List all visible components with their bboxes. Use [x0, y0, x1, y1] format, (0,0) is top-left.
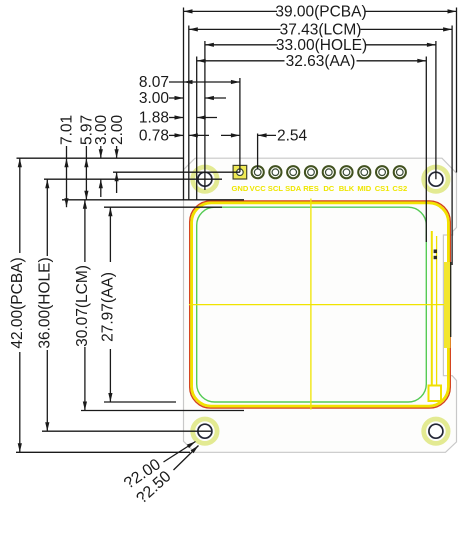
svg-text:30.07(LCM): 30.07(LCM) — [74, 265, 91, 347]
silk mark 2 — [434, 250, 437, 254]
svg-text:CS1: CS1 — [375, 184, 391, 193]
pin 3 round pad — [269, 166, 281, 178]
svg-text:32.63(AA): 32.63(AA) — [286, 53, 356, 70]
svg-text:GND: GND — [231, 184, 248, 193]
dimension 2.00 vertical — [116, 146, 118, 158]
svg-text:36.00(HOLE): 36.00(HOLE) — [37, 257, 54, 348]
flex connector strip (yellow) — [444, 262, 450, 348]
LCD glass right edge line — [431, 231, 433, 391]
svg-text:DC: DC — [323, 184, 334, 193]
flex connector edge — [450, 262, 452, 337]
dimension 37.43(LCM) horizontal — [189, 28, 452, 30]
mounting hole top-left — [193, 167, 217, 191]
svg-text:CS2: CS2 — [392, 184, 407, 193]
leader arrow hole diameter 2.50 — [174, 446, 199, 471]
extension line hole bottom center — [42, 430, 211, 432]
dimension 2.54 pin pitch — [221, 134, 240, 136]
mounting hole bottom-left — [193, 419, 217, 443]
svg-text:BLK: BLK — [339, 184, 355, 193]
extension line PCBA right — [456, 8, 458, 173]
dimension 32.63(AA) horizontal — [197, 60, 427, 62]
pin 7 round pad — [340, 166, 352, 178]
svg-text:27.97(AA): 27.97(AA) — [100, 272, 117, 342]
pin 4 round pad — [287, 166, 299, 178]
svg-text:3.00: 3.00 — [139, 90, 170, 107]
pin 2 round pad — [252, 166, 264, 178]
crosshair vertical centerline — [310, 199, 312, 410]
extension line PCB top — [17, 157, 184, 159]
dimension 8.07 — [169, 81, 240, 83]
svg-text:1.88: 1.88 — [139, 110, 169, 127]
mounting hole top-right — [424, 167, 448, 191]
extension line PCBA left — [183, 8, 185, 200]
dimension 7.01 vertical — [66, 146, 68, 207]
dimension 3.00 horizontal — [169, 97, 184, 99]
pin 9 round pad — [376, 166, 388, 178]
pin 8 round pad — [358, 166, 370, 178]
dimension 42.00(PCBA) vertical — [19, 158, 21, 253]
dimension 27.97(AA) vertical — [109, 207, 111, 262]
extension line HOLE left — [204, 41, 206, 190]
dimension 1.88 — [169, 117, 184, 119]
extension line HOLE right — [435, 41, 437, 179]
svg-text:42.00(PCBA): 42.00(PCBA) — [9, 257, 26, 348]
pin 6 round pad — [323, 166, 335, 178]
LCM glass (yellow) — [192, 203, 449, 406]
extension line pin1 center — [239, 78, 241, 172]
dimension 3.00 vertical — [100, 146, 102, 158]
svg-text:MID: MID — [357, 184, 371, 193]
svg-text:0.78: 0.78 — [139, 128, 169, 145]
dimension 33.00(HOLE) horizontal — [205, 44, 436, 46]
backlight tab bottom-right — [429, 386, 442, 402]
extension line PCB bottom — [16, 451, 190, 453]
dimension 30.07(LCM) vertical — [84, 200, 86, 262]
dimension 0.78 — [169, 134, 184, 136]
svg-text:3.00: 3.00 — [93, 114, 110, 145]
extension line LCM bottom — [81, 410, 244, 412]
extension line LCM top — [62, 199, 244, 201]
leader arrow hole diameter 2.00 — [164, 442, 196, 463]
extension line LCM left — [188, 26, 190, 200]
extension line pin2 center — [257, 134, 259, 170]
svg-text:SCL: SCL — [268, 184, 284, 193]
extension line AA right — [425, 57, 427, 243]
svg-text:7.01: 7.01 — [59, 115, 76, 145]
svg-text:39.00(PCBA): 39.00(PCBA) — [275, 4, 366, 21]
PCB outline — [184, 158, 457, 452]
svg-text:8.07: 8.07 — [139, 74, 169, 91]
extension line AA bottom — [104, 401, 176, 403]
dimension 39.00(PCBA) horizontal — [184, 10, 457, 12]
extension line AA top — [104, 206, 222, 208]
mounting hole bottom-right — [424, 419, 448, 443]
dimension 5.97 vertical — [85, 146, 87, 200]
crosshair horizontal centerline — [189, 304, 444, 306]
glass ledge edge line — [436, 236, 438, 399]
svg-text:2.54: 2.54 — [277, 128, 308, 145]
pin 10 round pad — [394, 166, 406, 178]
extension line AA left — [196, 57, 198, 200]
LCM outer boundary (red) — [190, 201, 451, 408]
pin 1 square pad — [233, 165, 247, 179]
svg-text:RES: RES — [303, 184, 319, 193]
extension line pin row center — [113, 171, 240, 173]
svg-text:33.00(HOLE): 33.00(HOLE) — [276, 37, 367, 54]
active area AA (green) — [197, 207, 427, 402]
extension line hole top center — [44, 178, 222, 180]
svg-text:2.00: 2.00 — [109, 114, 126, 145]
svg-text:VCC: VCC — [250, 184, 267, 193]
extension line LCM right — [451, 26, 453, 266]
dimension 36.00(HOLE) vertical — [46, 179, 48, 256]
pin 5 round pad — [305, 166, 317, 178]
svg-text:SDA: SDA — [285, 184, 302, 193]
